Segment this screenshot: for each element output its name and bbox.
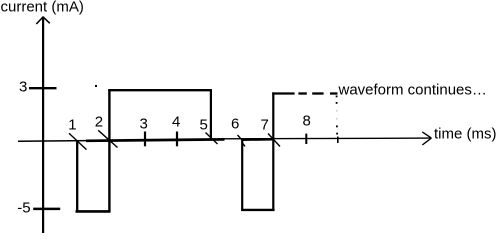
svg-text:time (ms): time (ms) xyxy=(434,125,497,142)
svg-text:6: 6 xyxy=(231,115,239,132)
pulse edge t=2 (rising from -5 to 3) xyxy=(108,89,110,212)
slash tick 6 lower mark xyxy=(243,143,245,146)
stray dot xyxy=(95,85,97,87)
svg-text:current (mA): current (mA) xyxy=(1,0,84,15)
svg-text:8: 8 xyxy=(303,112,311,129)
svg-text:5: 5 xyxy=(200,117,208,134)
svg-text:3: 3 xyxy=(19,79,27,96)
svg-text:1: 1 xyxy=(68,117,76,134)
svg-text:7: 7 xyxy=(261,117,269,134)
y tick at -5 xyxy=(33,208,60,211)
pulse C left edge (t=6 falling) xyxy=(241,139,243,211)
tick 9 (unlabeled) xyxy=(337,137,339,144)
x-axis arrowhead xyxy=(422,132,431,138)
slash tick 2 xyxy=(98,130,117,147)
level-3 segment after t=7 xyxy=(272,92,294,94)
svg-text:2: 2 xyxy=(95,113,103,130)
x-axis right segment xyxy=(225,137,431,140)
dashed continuation at level 3 xyxy=(298,92,306,94)
pulse A left edge (t=1 falling) xyxy=(76,140,78,213)
pulse B right edge (t=5 falling) xyxy=(210,89,212,141)
svg-text:-5: -5 xyxy=(17,199,30,216)
pulse C top thick zero segment t=6..7 xyxy=(242,138,274,141)
tick 3 xyxy=(144,132,146,147)
y-axis arrowhead xyxy=(36,17,43,24)
tick 8 xyxy=(305,134,307,144)
dotted vertical continuation marks xyxy=(336,96,338,98)
slash tick 6 upper xyxy=(238,135,243,140)
waveform thick zero-level segment t=1..5 xyxy=(86,139,225,140)
pulse B top at 3 (t=2..5) xyxy=(108,89,212,91)
slash tick 5 xyxy=(206,133,218,145)
y tick at 3 xyxy=(29,87,57,89)
x-axis left segment xyxy=(18,140,86,143)
svg-text:4: 4 xyxy=(172,113,180,130)
svg-text:waveform continues…: waveform continues… xyxy=(338,81,487,98)
slash tick 1 xyxy=(69,133,87,149)
tick 4 xyxy=(176,132,178,147)
y-axis xyxy=(42,17,44,234)
pulse A bottom at -5 xyxy=(76,210,111,213)
svg-text:3: 3 xyxy=(140,116,148,133)
slash tick 7 xyxy=(268,134,280,147)
pulse edge t=7 (rising from -5 to 3) xyxy=(272,92,274,210)
pulse C bottom at -5 xyxy=(241,209,274,211)
